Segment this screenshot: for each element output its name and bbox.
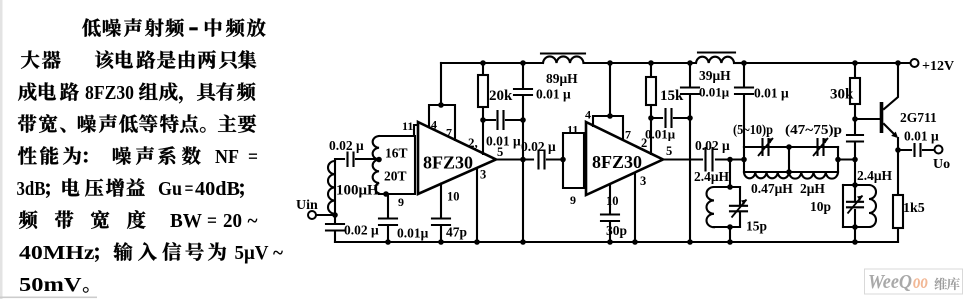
svg-text:5: 5 [497,145,503,159]
svg-text:(5~10)p: (5~10)p [733,122,773,137]
svg-text:oo: oo [913,271,928,293]
svg-text:0.02 μ: 0.02 μ [329,138,364,153]
svg-text:0.02 μ: 0.02 μ [344,223,379,238]
svg-text:=: = [207,210,217,232]
svg-text:15k: 15k [660,88,684,104]
svg-text:7: 7 [446,126,452,140]
svg-text:~: ~ [248,210,259,232]
svg-text:40dB: 40dB [195,178,240,200]
svg-text:11: 11 [402,119,413,133]
svg-text:2G711: 2G711 [900,110,937,125]
svg-text:2,: 2, [468,135,478,150]
svg-text:9: 9 [398,195,404,209]
svg-text:10p: 10p [810,199,831,214]
svg-text:20: 20 [223,210,242,232]
svg-text:0.01μ: 0.01μ [645,127,676,142]
svg-text:=: = [248,146,258,168]
svg-text:1k5: 1k5 [903,201,925,216]
svg-text:40MHz: 40MHz [19,242,95,264]
svg-text:Gu: Gu [158,178,182,200]
svg-text:3dB: 3dB [17,178,46,200]
svg-text:0.01 μ: 0.01 μ [904,129,939,144]
svg-text:NF: NF [215,146,239,168]
svg-text:5: 5 [666,144,672,158]
svg-text:8FZ30: 8FZ30 [592,152,642,172]
svg-text:4: 4 [585,108,591,122]
svg-text:100μH: 100μH [336,183,379,199]
svg-text:2.4μH: 2.4μH [694,169,730,184]
svg-text:BW: BW [170,210,202,232]
svg-text:39μH: 39μH [699,68,731,83]
svg-text:0.01μ: 0.01μ [699,85,730,100]
svg-text:9: 9 [570,193,576,207]
svg-text:0.47μH: 0.47μH [751,181,793,196]
svg-text:15p: 15p [746,219,767,234]
svg-text:0.02 μ: 0.02 μ [695,138,730,153]
svg-text:8FZ30: 8FZ30 [85,82,134,104]
svg-text:0.01 μ: 0.01 μ [536,87,571,102]
svg-text:30k: 30k [830,87,854,103]
svg-text:(47~75)p: (47~75)p [785,122,842,137]
svg-text:10: 10 [606,194,619,208]
svg-text:WeeQ: WeeQ [868,271,912,293]
svg-text:8FZ30: 8FZ30 [423,153,473,173]
svg-text:5μV: 5μV [235,242,270,264]
svg-text:47p: 47p [446,225,467,240]
svg-text:2.4μH: 2.4μH [857,168,893,183]
svg-text:30p: 30p [606,223,627,238]
svg-text:4: 4 [431,118,437,132]
svg-text:20T: 20T [384,169,407,184]
svg-text:10: 10 [447,190,460,204]
svg-text:0.01 μ: 0.01 μ [486,134,521,149]
svg-text:0.01 μ: 0.01 μ [754,86,789,101]
svg-text:11: 11 [567,123,578,137]
svg-text:~: ~ [273,242,284,264]
svg-text:50mV: 50mV [19,274,82,296]
svg-text:89μH: 89μH [546,71,578,86]
svg-text:+12V: +12V [922,59,954,74]
svg-text:Uin: Uin [296,198,318,213]
svg-text:0.01μ: 0.01μ [397,226,429,241]
svg-text:3: 3 [640,174,646,188]
svg-text:7: 7 [625,128,631,142]
svg-text:0.02 μ: 0.02 μ [521,139,556,154]
svg-text:2μH: 2μH [800,181,825,196]
svg-text:16T: 16T [385,146,408,161]
svg-text:Uo: Uo [933,157,950,172]
svg-text:20k: 20k [489,88,513,104]
svg-text:=: = [185,178,194,200]
svg-text:3: 3 [480,168,486,182]
